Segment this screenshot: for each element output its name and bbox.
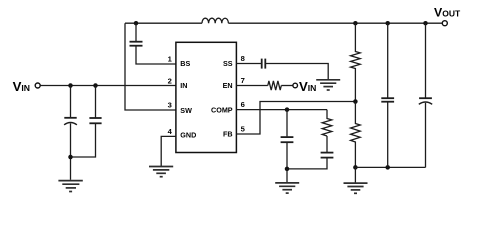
resistor R2 (feedback bottom) bbox=[351, 102, 361, 168]
svg-text:GND: GND bbox=[180, 130, 196, 139]
capacitor C1 (polarized input cap) bbox=[64, 86, 77, 180]
junction comp ground node bbox=[285, 167, 290, 172]
wire SS cap to ground bbox=[266, 64, 328, 80]
svg-text:4: 4 bbox=[168, 127, 173, 136]
wire top rail left (SW node to inductor) bbox=[125, 22, 202, 24]
svg-text:2: 2 bbox=[168, 76, 172, 85]
node VIN enable terminal bbox=[293, 83, 298, 88]
capacitor C7 (comp cap) bbox=[281, 110, 294, 169]
resistor R1 (feedback top) bbox=[351, 23, 361, 101]
junction FB node bbox=[353, 99, 358, 104]
junction input cap C2 top bbox=[93, 83, 98, 88]
node VOUT output terminal bbox=[442, 21, 447, 26]
wire VIN rail to IN pin 2 bbox=[40, 85, 176, 87]
junction output cap C5 top bbox=[423, 21, 428, 26]
label VOUT bbox=[434, 6, 461, 20]
label VIN (input) bbox=[13, 79, 30, 94]
svg-text:IN: IN bbox=[308, 83, 317, 93]
wire output caps bottom rail bbox=[355, 166, 425, 168]
svg-text:8: 8 bbox=[241, 54, 245, 63]
svg-text:6: 6 bbox=[241, 100, 245, 109]
wire EN resistor to VIN terminal bbox=[281, 85, 293, 87]
pin number 8 bbox=[241, 54, 245, 63]
capacitor C2 (input cap) bbox=[71, 86, 102, 158]
svg-text:EN: EN bbox=[223, 81, 233, 90]
pin number 7 bbox=[241, 76, 245, 85]
junction input caps bottom node bbox=[68, 155, 73, 160]
capacitor C3 (bootstrap BS cap) bbox=[130, 23, 176, 64]
junction feedback divider top bbox=[353, 21, 358, 26]
inductor L1 bbox=[202, 18, 228, 23]
resistor R3 (EN pull-up) bbox=[268, 81, 282, 90]
pin number 1 bbox=[168, 55, 173, 64]
wire EN pin 7 stub bbox=[236, 85, 267, 87]
svg-text:5: 5 bbox=[241, 124, 246, 133]
junction output cap C4 top bbox=[385, 21, 390, 26]
pin label GND bbox=[180, 130, 196, 139]
resistor R4 (comp resistor) bbox=[322, 110, 332, 136]
pin label EN bbox=[223, 81, 233, 90]
svg-text:IN: IN bbox=[180, 81, 187, 90]
capacitor C6 (soft-start cap) bbox=[262, 59, 266, 69]
pin label FB bbox=[223, 130, 233, 139]
ground comp network bbox=[275, 169, 299, 193]
junction comp cap top bbox=[285, 107, 290, 112]
junction BS cap top bbox=[134, 21, 139, 26]
capacitor C5 (polarized output cap) bbox=[419, 23, 432, 167]
wire GND pin 4 to ground bbox=[161, 136, 176, 166]
pin label BS bbox=[180, 59, 190, 68]
ground IC GND pin bbox=[149, 167, 173, 177]
svg-text:3: 3 bbox=[168, 101, 172, 110]
svg-text:IN: IN bbox=[21, 83, 30, 93]
svg-text:SW: SW bbox=[180, 106, 192, 115]
svg-text:7: 7 bbox=[241, 76, 245, 85]
junction divider ground node bbox=[353, 165, 358, 170]
wire top rail right (inductor to VOUT) bbox=[228, 22, 442, 24]
pin label SS bbox=[223, 59, 233, 68]
wire SS pin 8 stub bbox=[236, 63, 261, 65]
svg-text:COMP: COMP bbox=[211, 105, 233, 114]
wire COMP pin 6 bbox=[236, 109, 327, 111]
svg-text:V: V bbox=[13, 79, 22, 94]
op-amp U1 (regulator IC box) bbox=[176, 42, 237, 152]
pin number 2 bbox=[168, 76, 172, 85]
pin label COMP bbox=[211, 105, 233, 114]
svg-text:1: 1 bbox=[168, 55, 173, 64]
svg-text:OUT: OUT bbox=[442, 9, 461, 19]
pin number 3 bbox=[168, 101, 172, 110]
label VIN (enable) bbox=[299, 79, 316, 94]
capacitor C8 (comp series cap) bbox=[287, 136, 333, 169]
junction output cap C4 bottom bbox=[385, 165, 390, 170]
svg-text:BS: BS bbox=[180, 59, 190, 68]
wire SW pin 3 to switch node riser bbox=[125, 23, 176, 110]
svg-text:SS: SS bbox=[223, 59, 233, 68]
ground soft-start bbox=[316, 80, 340, 90]
pin label SW bbox=[180, 106, 192, 115]
svg-text:V: V bbox=[299, 79, 308, 94]
capacitor C4 (output cap) bbox=[381, 23, 394, 167]
ground input caps bbox=[58, 181, 82, 192]
ground output node bbox=[344, 167, 368, 193]
node VIN input terminal bbox=[35, 83, 40, 88]
wire FB pin 5 to divider tap bbox=[236, 102, 355, 135]
pin label IN bbox=[180, 81, 187, 90]
pin number 6 bbox=[241, 100, 245, 109]
svg-text:FB: FB bbox=[223, 130, 233, 139]
junction input cap C1 top bbox=[68, 83, 73, 88]
pin number 5 bbox=[241, 124, 246, 133]
pin number 4 bbox=[168, 127, 173, 136]
